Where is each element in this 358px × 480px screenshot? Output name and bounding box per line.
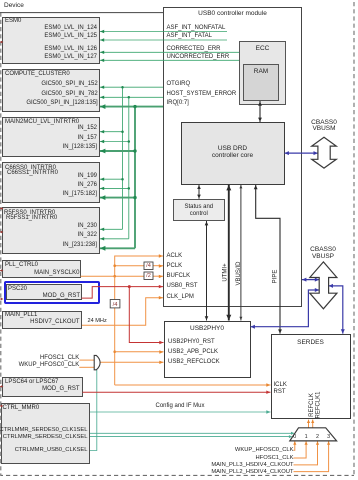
svg-text:PIPE: PIPE (273, 270, 279, 284)
svg-text:REFCLK: REFCLK (309, 393, 315, 417)
svg-text:UTMI+: UTMI+ (223, 263, 229, 282)
svg-text:REFCLK1: REFCLK1 (315, 391, 321, 419)
svg-text:VBUS/ID: VBUS/ID (236, 261, 242, 286)
